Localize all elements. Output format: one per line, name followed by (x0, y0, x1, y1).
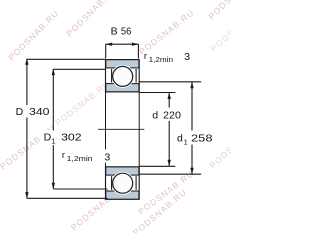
dimension d 220: extension lines (139, 92, 175, 94)
svg-text:302: 302 (61, 132, 82, 144)
label d1 258 (176, 131, 215, 145)
bore silhouette vertical lines (middle) (105, 92, 107, 167)
svg-text:1: 1 (51, 137, 55, 146)
d1 bottom arrowhead (190, 168, 193, 175)
dimension B: dimension line (106, 43, 139, 45)
svg-text:d: d (177, 133, 183, 145)
outer ring bottom band (blue) (106, 191, 139, 199)
axis centerline (98, 128, 144, 130)
svg-text:220: 220 (163, 110, 181, 122)
svg-text:1,2min: 1,2min (149, 57, 174, 64)
B right arrowhead (132, 43, 139, 46)
D bottom arrowhead (25, 192, 28, 199)
d1 vertical dimension line (191, 82, 193, 174)
d top arrowhead (168, 93, 171, 100)
svg-text:B: B (111, 26, 118, 38)
svg-text:1,2min: 1,2min (67, 156, 93, 163)
inner ring top band (blue) (106, 84, 139, 92)
cage lines top (111, 69, 113, 83)
D bottom extension line (27, 197, 108, 199)
D top arrowhead (25, 58, 28, 65)
ball bottom (113, 173, 133, 193)
svg-text:340: 340 (29, 106, 50, 118)
dimension d1 258: extension lines (139, 81, 201, 83)
svg-text:3: 3 (184, 51, 190, 63)
svg-text:r: r (62, 150, 65, 161)
D1 bottom extension line (53, 188, 107, 190)
ball top (113, 66, 133, 86)
ball bottom: white halo (111, 172, 134, 195)
D1 bottom arrowhead (52, 183, 55, 190)
svg-text:1: 1 (184, 137, 188, 146)
outer ring top band (blue) (106, 60, 139, 68)
svg-text:D: D (16, 106, 24, 118)
svg-text:r: r (144, 51, 147, 62)
dimension D1 302: vertical line (52, 69, 54, 189)
label D1 302 (42, 131, 83, 146)
bearing bottom section outline (106, 167, 140, 199)
B left arrowhead (106, 43, 113, 46)
svg-text:56: 56 (121, 26, 132, 38)
d1 top arrowhead (190, 82, 193, 89)
D1 top extension line (53, 68, 105, 70)
bearing outer ring top section outline (106, 60, 140, 92)
D top extension line (27, 58, 106, 60)
svg-text:258: 258 (191, 133, 213, 145)
dimension B: extension lines (105, 44, 107, 58)
inner ring bottom band (blue) (106, 167, 139, 175)
cage lines bottom (111, 176, 113, 190)
label d 220 (150, 108, 184, 122)
d bottom arrowhead (168, 160, 171, 167)
svg-text:d: d (152, 110, 158, 122)
d vertical dimension line (168, 93, 170, 167)
dimension D 340: vertical line (26, 59, 28, 199)
svg-text:3: 3 (104, 152, 110, 164)
label D 340 (14, 105, 48, 118)
D1 top arrowhead (52, 69, 55, 76)
ball top: white halo (111, 65, 134, 88)
